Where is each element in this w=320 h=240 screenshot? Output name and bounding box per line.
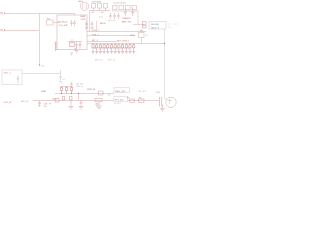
key switch column S11 [129,44,132,54]
capacitor C19 stub [70,82,72,87]
ground G5 [70,53,73,55]
svg-text:REG_3V3: REG_3V3 [115,91,126,93]
wire mid bottom [55,93,114,95]
wire vertical to row nets [96,21,98,32]
svg-text:1u 1u 1u: 1u 1u 1u [108,20,115,22]
IC box U4 [114,96,128,101]
wire key bus [90,43,165,45]
key switch column S6 [110,44,113,54]
wire cluster A bus [90,8,110,11]
capacitor C10 [91,21,94,27]
inductor L1 inline [130,99,135,102]
wire corner into filter row [74,14,76,16]
capacitor C16 [75,42,77,49]
svg-text:R1 R2 R3: R1 R2 R3 [92,2,102,4]
svg-text:1k: 1k [105,48,107,50]
capacitor C20 [109,13,111,19]
capacitor C6 [131,9,134,17]
svg-text:KEY_C0: KEY_C0 [95,59,102,61]
capacitor C11 [60,87,62,94]
resistor R1 [92,4,96,9]
ground G1 [69,101,74,110]
wire bus1 [90,31,146,33]
crystal Y1 [17,76,19,84]
key switch column S8 [117,44,120,54]
resistor R8 [70,43,75,47]
svg-text:XIN: XIN [41,66,45,68]
component inline gray [59,70,62,81]
svg-text:1k: 1k [120,48,122,50]
pin header P1 [56,43,58,51]
op-amp U1 big box [57,15,87,50]
module box X1 [2,70,22,85]
resistor R3 [104,4,108,9]
svg-text:OSC_1: OSC_1 [4,73,12,75]
wire net2 horizontal [4,30,39,32]
junction dot [39,64,40,65]
svg-text:VBAT: VBAT [41,90,47,93]
transistor Q1 [139,33,145,38]
svg-text:C1 C2 C3 C4: C1 C2 C3 C4 [113,2,126,4]
wire Q1 down [141,38,143,44]
svg-text:VDD: VDD [130,35,135,37]
diode D2 [142,25,146,28]
ground G3 under speaker [160,105,165,112]
key switch column S10 [125,44,128,54]
resistor R5 between rows [62,97,65,100]
ground G4 [75,51,79,54]
junction bus-rail [164,43,165,44]
capacitor C4 [132,6,137,10]
junction dots [61,93,62,94]
svg-text:10u: 10u [74,49,77,51]
wire net2 vertical drop [39,14,41,66]
svg-text:4k7: 4k7 [92,12,95,14]
wire right rail vertical [164,29,166,97]
wire to speaker [128,100,160,102]
svg-text:Q1: Q1 [145,35,148,37]
svg-text:AMP_1W: AMP_1W [122,20,131,23]
ground under C10 [90,27,93,29]
key switch column S12 [132,44,135,54]
ground under C9 [85,27,88,29]
svg-text:10u: 10u [44,106,47,108]
svg-text:OUT_A: OUT_A [4,101,12,104]
svg-text:1k: 1k [124,48,126,50]
key switch column S3 [99,44,102,54]
capacitor C21 [113,13,115,19]
svg-text:1k: 1k [113,48,115,50]
resistor R6 between rows [69,97,72,100]
svg-text:KEY_C1: KEY_C1 [108,59,115,61]
svg-text:1k: 1k [94,48,96,50]
svg-text:4k7: 4k7 [101,12,104,14]
capacitor C5 [124,9,127,17]
svg-text:LC_FLT: LC_FLT [114,103,122,105]
capacitor C22 [117,13,119,19]
comp inline left [55,99,59,102]
capacitor C18 to ground [38,101,41,107]
polarized cap C14 [99,91,104,95]
wire bus2 [90,35,135,37]
svg-text:1k: 1k [102,48,104,50]
wire module out [22,73,61,75]
svg-text:0.1u: 0.1u [99,17,103,19]
svg-text:SP_OUT: SP_OUT [139,91,147,93]
svg-text:R9: R9 [49,103,51,105]
svg-text:SO8_AMP: SO8_AMP [59,24,69,27]
svg-text:1k: 1k [109,48,111,50]
microphone MK1 circle [80,2,88,10]
speaker LS1 circle [166,97,176,107]
svg-text:100n x3: 100n x3 [76,86,83,88]
wire R4 to U1 [53,22,60,24]
capacitor C13 [70,87,72,94]
capacitor C3 [126,6,131,10]
key switch column S1 [92,44,95,54]
capacitor C8 [73,20,75,26]
svg-text:TPA301D: TPA301D [122,17,131,20]
wire caps top [60,86,73,88]
svg-text:MUTE: MUTE [100,23,106,25]
key switch column S4 [103,44,106,54]
capacitor C2 [119,6,124,10]
svg-text:SDA_X: SDA_X [92,33,99,36]
capacitor C7 [70,20,72,26]
wire mic down [89,10,91,31]
inductor L2 inline [139,99,145,102]
svg-text:KEY_RTN_0: KEY_RTN_0 [117,40,130,42]
wire to connector [133,24,144,26]
wire rail to speaker [165,97,167,100]
svg-text:PHONE: PHONE [151,24,159,26]
connector J1 box [149,22,166,30]
svg-text:BIAS: BIAS [81,15,86,18]
svg-text:PWR_IN: PWR_IN [87,89,96,91]
capacitor C1 [113,6,118,10]
svg-text:MC34119: MC34119 [59,22,69,24]
wire junction vertical [78,94,80,101]
svg-text:NET_05: NET_05 [21,101,29,103]
capacitor C12 [65,87,67,94]
svg-text:1k: 1k [128,48,130,50]
svg-text:FLT_BD: FLT_BD [115,99,123,101]
wire net1 horizontal [4,13,75,15]
key switch column S7 [114,44,117,54]
wire cluster B bus [112,10,138,12]
key switch column S9 [121,44,124,54]
IC box U3 [114,88,130,93]
resistor R2 [98,4,102,9]
ground G2 [96,102,102,109]
capacitor C17 [79,42,81,49]
trimmer circles [96,103,98,105]
key switch column S2 [95,44,98,54]
svg-text:1k: 1k [98,48,100,50]
svg-text:1k: 1k [116,48,118,50]
filter block row: resistor R4 [47,20,54,25]
svg-text:JACK_3: JACK_3 [151,26,160,29]
capacitor C15 to ground [79,101,84,110]
svg-text:VREF: VREF [81,19,87,21]
wire cluster mid-left [68,39,82,42]
pin stubs right edge [87,32,90,44]
resistor R7 inline [95,98,102,102]
diode D1 [142,22,146,25]
key switch column S5 [106,44,109,54]
wire bus3 [90,41,117,43]
wire clusterB down [137,11,139,25]
off-sheet marks [168,24,179,27]
wire low bottom [33,100,114,102]
speaker LS1 bars [159,97,162,107]
capacitor C9 [85,21,88,27]
